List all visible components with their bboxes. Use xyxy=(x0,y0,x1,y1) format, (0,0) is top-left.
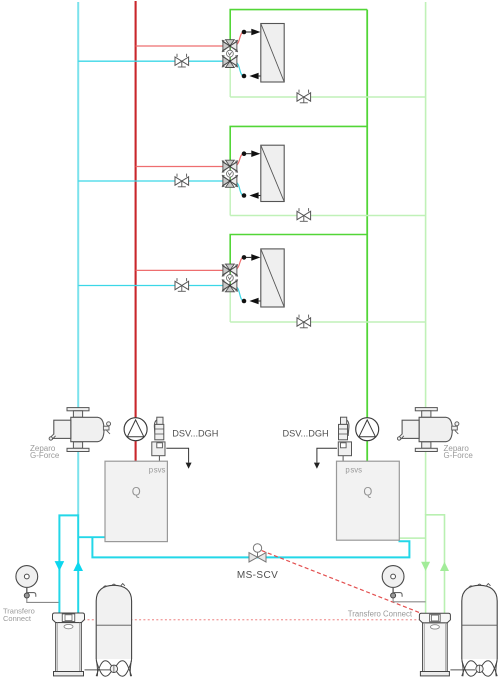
balancing valve STAD unit 3 header xyxy=(297,315,311,328)
signal dashed diagonal MS-SCV to boiler 2 xyxy=(262,551,425,615)
flow arrow into coil unit 3 xyxy=(246,254,260,261)
wire pale green return header unit 2 xyxy=(230,215,425,217)
label Transfero Connect left xyxy=(3,606,35,622)
wire pale green return drop unit 3 xyxy=(229,286,231,323)
wire green supply branch unit 2 xyxy=(230,126,367,166)
flow arrow out of coil unit 2 xyxy=(249,192,260,199)
wire red hook-up unit 1 xyxy=(235,32,244,45)
flow arrow into coil unit 2 xyxy=(246,150,260,157)
label Zeparo G-Force left xyxy=(30,444,60,460)
wire Transfero right connection xyxy=(393,599,426,602)
3-way control valve unit 1 return xyxy=(222,55,238,67)
svg-text:p svs: p svs xyxy=(345,466,362,475)
svg-text:G-Force: G-Force xyxy=(30,451,60,460)
flow arrow up (cyan) xyxy=(73,561,83,571)
wire green supply branch unit 3 xyxy=(230,235,367,271)
pressurisation unit Transfero Connect left xyxy=(16,566,38,598)
air handler coil unit 2 xyxy=(261,145,284,201)
svg-text:Transfero Connect: Transfero Connect xyxy=(348,609,413,618)
3-way control valve unit 2 return xyxy=(222,175,238,187)
pressurisation unit Transfero Connect right xyxy=(382,566,404,598)
flow arrow into coil unit 1 xyxy=(246,29,260,36)
wire cyan return branch unit 2 xyxy=(78,180,222,182)
flow arrow up (pale green) xyxy=(440,562,449,571)
wire cyan bottom header xyxy=(92,537,409,557)
flow arrow out of coil unit 3 xyxy=(249,298,260,305)
svg-text:Q: Q xyxy=(132,487,141,499)
wire green link through valve group unit 1 xyxy=(229,46,231,61)
valve actuator unit 1 xyxy=(227,46,234,61)
valve actuator unit 3 xyxy=(227,270,234,285)
wire red hook-up unit 2 xyxy=(235,154,244,166)
wire red supply riser xyxy=(135,1,137,462)
svg-text:Q: Q xyxy=(363,487,372,499)
wire cyan branch to boiler inlet xyxy=(59,515,78,613)
safety valve DSV left xyxy=(152,417,192,469)
wire vessel connection right xyxy=(450,669,475,671)
svg-text:G-Force: G-Force xyxy=(444,451,474,460)
source unit Q2 box xyxy=(337,461,400,540)
wire green supply branch unit 1 xyxy=(230,10,367,46)
air handler coil unit 1 xyxy=(261,24,284,83)
wire green link through valve group unit 3 xyxy=(229,270,231,285)
3-way control valve unit 2 supply xyxy=(222,160,238,172)
valve actuator unit 2 xyxy=(227,167,234,182)
wire pale green stub to source unit Q2 xyxy=(399,537,425,539)
boiler B1 xyxy=(53,613,85,676)
node return unit 1 xyxy=(242,74,247,79)
wire cyan return branch unit 1 xyxy=(78,60,222,62)
balancing valve STAD unit 1 return xyxy=(175,54,189,67)
wire red supply branch unit 3 xyxy=(136,269,223,271)
node supply unit 3 xyxy=(242,255,247,260)
flow arrow down (pale green) xyxy=(421,562,430,571)
pump P2 xyxy=(356,418,379,441)
node supply unit 2 xyxy=(242,151,247,156)
expansion vessel right xyxy=(462,584,497,677)
wire pale green return header unit 1 xyxy=(230,96,425,98)
wire pale green return drop unit 1 xyxy=(229,61,231,97)
separator Zeparo G-Force right xyxy=(397,408,459,452)
wire cyan stub to source unit Q1 xyxy=(78,536,105,538)
wire pale green return drop unit 2 xyxy=(229,181,231,216)
wire Transfero left connection xyxy=(27,599,59,603)
wire red supply branch unit 2 xyxy=(136,166,223,168)
separator Zeparo G-Force left xyxy=(49,408,111,452)
balancing valve STAD unit 2 return xyxy=(175,174,189,187)
wire pale green return riser xyxy=(425,2,427,515)
source unit Q1 box xyxy=(105,461,167,541)
3-way control valve unit 3 supply xyxy=(222,264,238,276)
balancing valve STAD unit 1 header xyxy=(297,90,311,103)
wire cyan hook-up unit 2 xyxy=(235,182,244,196)
wire vessel connection left xyxy=(85,669,113,671)
pump P1 xyxy=(124,418,147,441)
node supply unit 1 xyxy=(242,30,247,35)
wire pale green boiler outlet xyxy=(426,515,445,614)
svg-text:p svs: p svs xyxy=(149,466,166,475)
wire cyan return riser (upper) xyxy=(77,2,79,515)
svg-text:Connect: Connect xyxy=(3,614,32,623)
balancing valve STAD unit 3 return xyxy=(175,278,189,291)
expansion vessel left xyxy=(96,584,131,677)
wire red supply branch unit 1 xyxy=(136,45,223,47)
node return unit 2 xyxy=(242,193,247,198)
svg-text:DSV...DGH: DSV...DGH xyxy=(283,429,329,439)
wire red hook-up unit 3 xyxy=(235,257,244,269)
wire cyan return branch unit 3 xyxy=(78,285,222,287)
3-way control valve unit 1 supply xyxy=(222,40,238,52)
label Zeparo G-Force right xyxy=(444,444,474,460)
flow arrow down (cyan) xyxy=(55,561,65,571)
svg-text:MS-SCV: MS-SCV xyxy=(237,570,278,581)
valve MS-SCV xyxy=(249,544,266,562)
3-way control valve unit 3 return xyxy=(222,280,238,292)
svg-text:DSV...DGH: DSV...DGH xyxy=(172,429,218,439)
wire pale green return riser lower xyxy=(425,514,427,614)
wire cyan hook-up unit 3 xyxy=(235,287,244,302)
wire green supply riser xyxy=(366,10,368,462)
node return unit 3 xyxy=(242,299,247,304)
wire cyan return riser (lower) xyxy=(77,514,79,613)
signal dashed boiler to boiler xyxy=(75,619,430,621)
safety valve DSV right xyxy=(314,417,352,469)
wire green link through valve group unit 2 xyxy=(229,167,231,182)
wire cyan hook-up unit 1 xyxy=(235,62,244,76)
boiler B2 xyxy=(419,613,450,676)
balancing valve STAD unit 2 header xyxy=(297,208,311,221)
wire pale green return header unit 3 xyxy=(230,321,425,323)
air handler coil unit 3 xyxy=(261,249,284,307)
flow arrow out of coil unit 1 xyxy=(249,73,260,80)
